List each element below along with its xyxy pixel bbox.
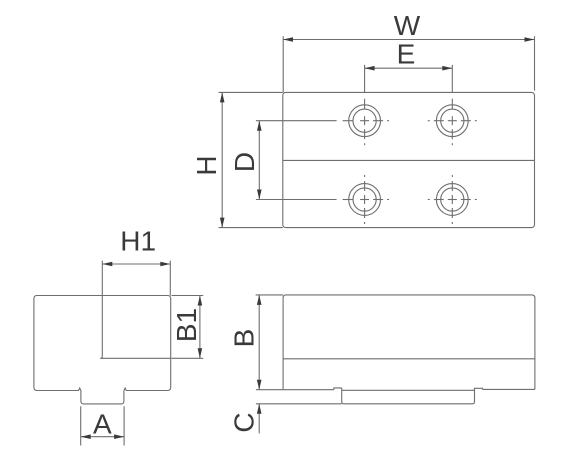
D arrow bottom: [257, 190, 262, 200]
hole bottom-left inner circle: [353, 188, 376, 211]
hole bottom-right inner circle: [441, 188, 464, 211]
H1 dimension line: [102, 263, 170, 265]
front view bottom edge: [283, 389, 334, 391]
A extension line right: [123, 406, 125, 445]
B1 extension line bottom: [172, 357, 204, 359]
B arrow bottom: [257, 380, 262, 390]
front view right relief notch: [475, 388, 483, 389]
B arrow top: [257, 295, 262, 305]
front view body outline: [283, 295, 535, 390]
H extension line bottom: [219, 227, 283, 229]
centerline horizontal hole bottom-left (merges with D extension): [256, 199, 389, 201]
hole bottom-left outer circle: [349, 184, 381, 216]
svg-text:W: W: [394, 10, 421, 41]
front view left relief notch: [334, 388, 342, 390]
svg-text:C: C: [229, 412, 260, 432]
D arrow top: [257, 121, 262, 131]
B1 arrow bottom: [198, 348, 203, 358]
B1 arrow top: [198, 296, 203, 306]
A arrow left: [81, 434, 91, 439]
hole bottom-right outer circle: [436, 184, 468, 216]
C dimension tail line: [258, 404, 260, 434]
B1 extension line top: [172, 295, 204, 297]
top view mid parting line: [283, 159, 535, 161]
H1 extension line right: [169, 261, 171, 296]
centerline horizontal hole top-left (merges with D extension): [256, 120, 389, 122]
H1 extension line left: [101, 261, 103, 296]
B dimension line: [258, 295, 260, 390]
H extension line top: [219, 91, 283, 93]
H arrow top: [220, 92, 225, 102]
W extension line right: [534, 36, 536, 90]
hole top-right inner circle: [441, 109, 464, 132]
svg-text:B: B: [229, 329, 260, 348]
E dimension line: [365, 67, 453, 69]
D dimension line: [258, 121, 260, 200]
top view body outline: [283, 92, 535, 227]
svg-text:H1: H1: [120, 226, 156, 257]
W dimension line: [283, 39, 535, 41]
W extension line left: [282, 36, 284, 92]
H arrow bottom: [220, 218, 225, 228]
svg-text:D: D: [229, 152, 260, 172]
left view internal step horizontal edge: [100, 356, 171, 358]
centerline vertical hole bottom-left: [364, 175, 366, 224]
hole top-left outer circle: [349, 105, 381, 137]
H1 arrow right: [160, 262, 170, 267]
W arrow right: [525, 37, 535, 42]
B1 dimension line: [199, 296, 201, 359]
B extension line bottom / C top extension: [256, 389, 283, 391]
left view internal step vertical edge: [101, 296, 103, 357]
C arrow up (tip at tongue bottom line): [257, 404, 262, 414]
svg-text:A: A: [93, 408, 112, 439]
H dimension line: [221, 92, 223, 227]
svg-text:E: E: [397, 39, 416, 70]
A arrow right: [114, 434, 124, 439]
B extension line top: [256, 294, 284, 296]
A extension line left: [80, 406, 82, 445]
centerline vertical hole top-right (merges with E extension): [451, 65, 453, 145]
E arrow left: [365, 66, 375, 71]
C extension line bottom: [256, 403, 342, 405]
A dimension line: [81, 436, 124, 438]
svg-text:H: H: [191, 155, 222, 175]
centerline horizontal hole top-right: [428, 120, 477, 122]
centerline vertical hole top-left (merges with E extension): [364, 65, 366, 145]
front view tongue: [342, 388, 475, 404]
W arrow left: [283, 37, 293, 42]
hole top-left inner circle: [353, 109, 376, 132]
svg-text:B1: B1: [171, 308, 202, 342]
centerline vertical hole bottom-right: [451, 175, 453, 224]
hole top-right outer circle: [436, 105, 468, 137]
left view body outline with tongue and relief notches: [34, 296, 171, 404]
H1 arrow left: [102, 262, 112, 267]
E arrow right: [442, 66, 452, 71]
front view internal horizontal edge: [283, 358, 535, 360]
centerline horizontal hole bottom-right: [428, 199, 477, 201]
